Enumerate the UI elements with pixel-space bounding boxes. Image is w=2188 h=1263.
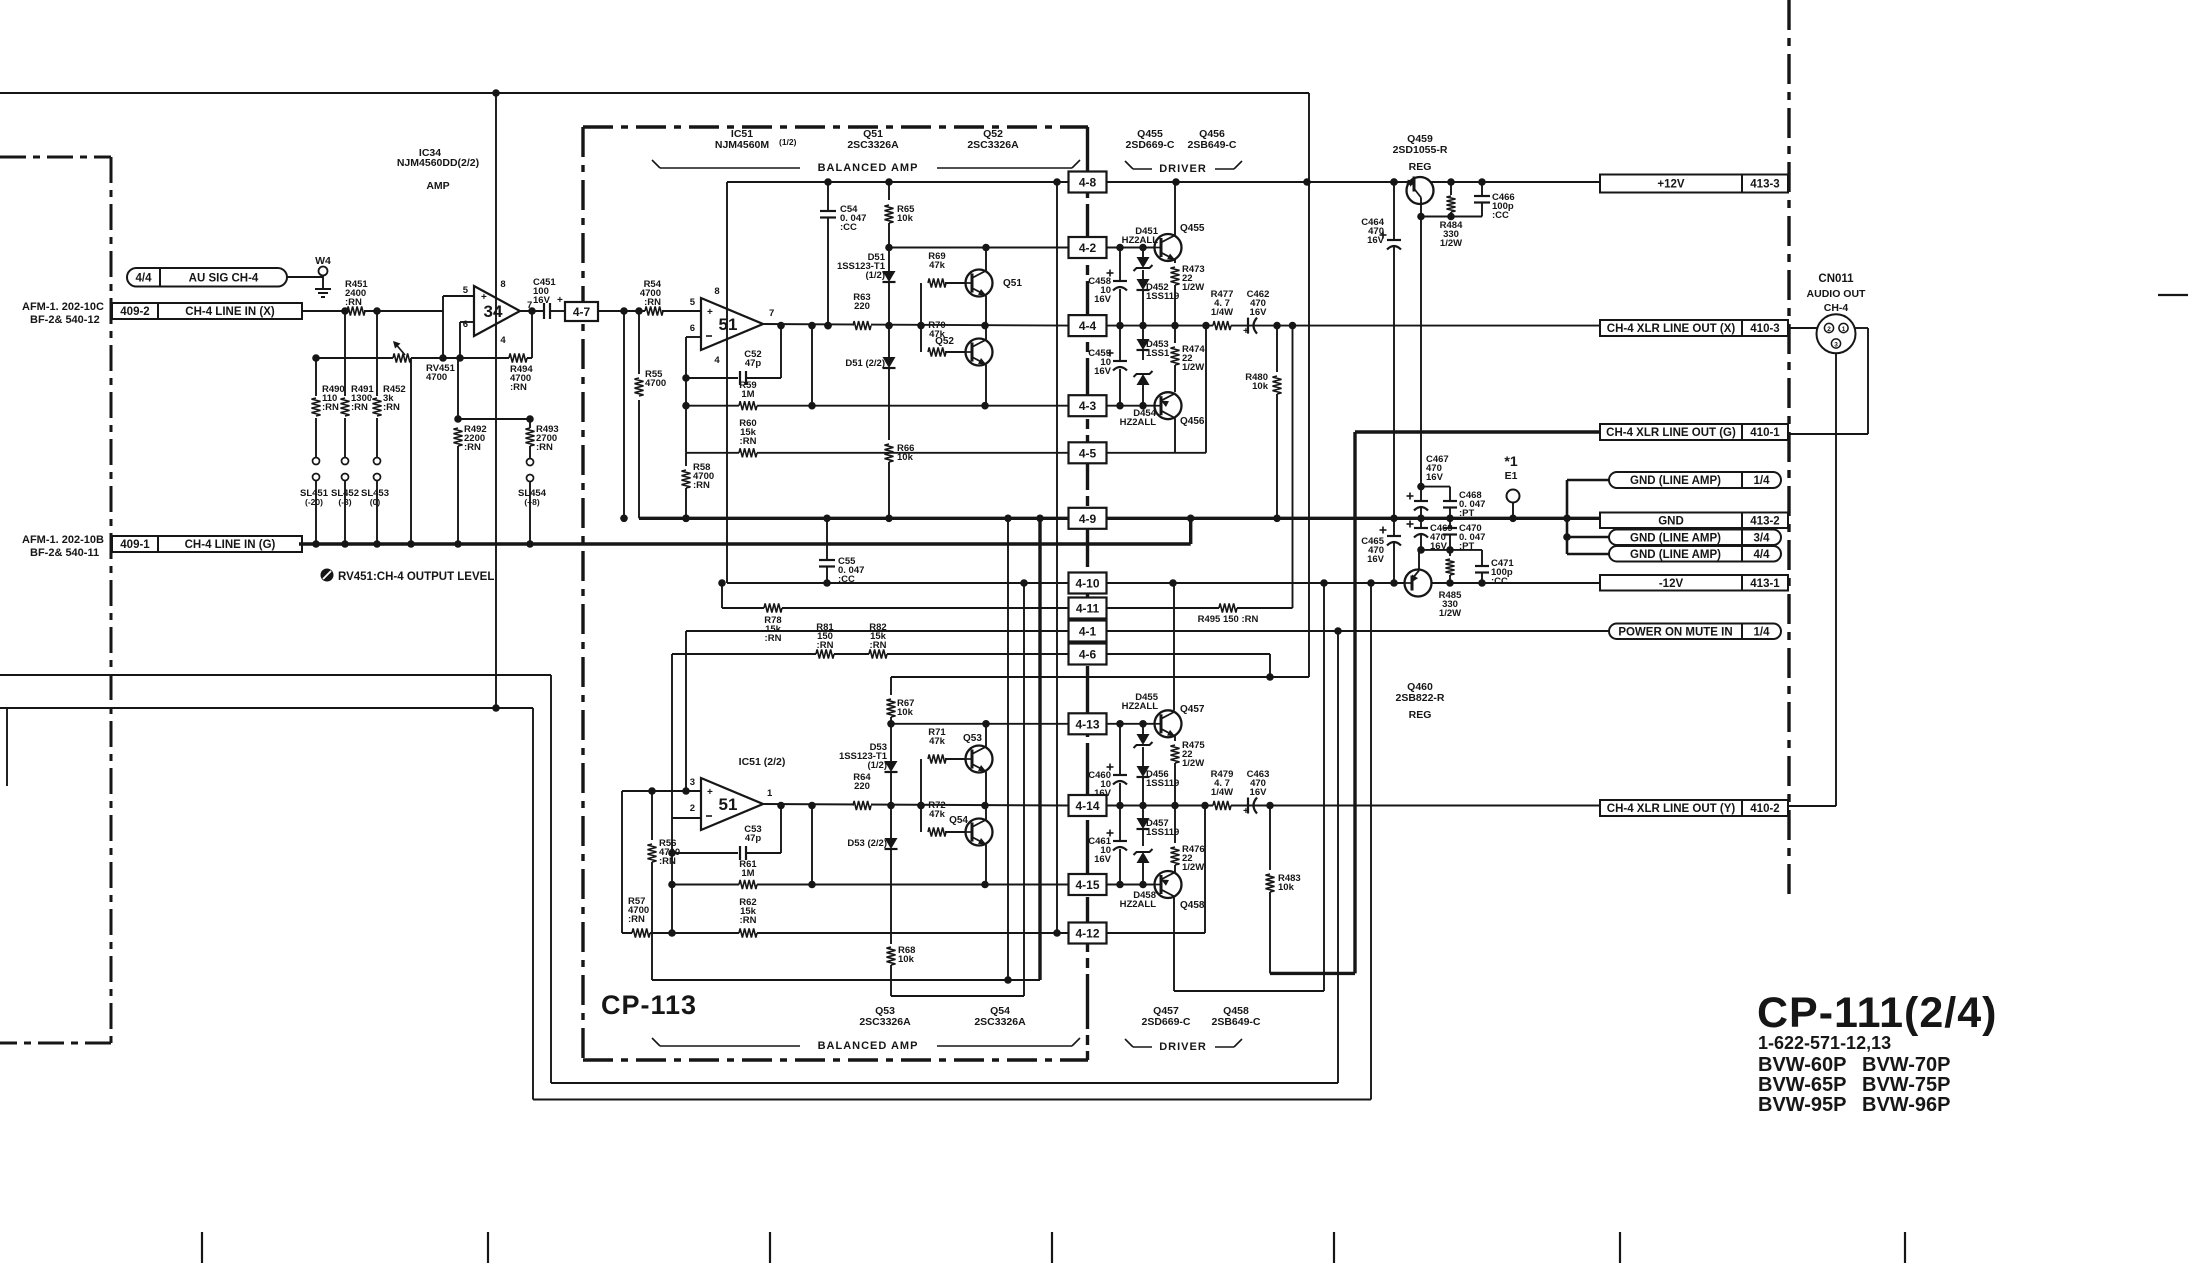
svg-text:4-6: 4-6 xyxy=(1079,648,1097,662)
svg-text:2SC3326A: 2SC3326A xyxy=(847,139,899,151)
svg-text:6: 6 xyxy=(690,323,695,334)
svg-text:4-8: 4-8 xyxy=(1079,176,1097,190)
svg-text:CH-4: CH-4 xyxy=(1824,302,1849,314)
svg-text:2SB822-R: 2SB822-R xyxy=(1395,692,1444,704)
svg-text:*1: *1 xyxy=(1504,453,1517,469)
svg-text:3/4: 3/4 xyxy=(1754,532,1771,544)
svg-text:GND: GND xyxy=(1658,515,1684,527)
svg-text::RN: :RN xyxy=(322,402,339,413)
svg-text:BVW-75P: BVW-75P xyxy=(1862,1074,1951,1096)
svg-text:CH-4 XLR LINE OUT (Y): CH-4 XLR LINE OUT (Y) xyxy=(1607,803,1736,815)
svg-text:5: 5 xyxy=(690,297,696,308)
svg-text:(1/2): (1/2) xyxy=(865,270,885,281)
svg-text:8: 8 xyxy=(500,279,505,290)
svg-text:4700: 4700 xyxy=(645,378,666,389)
svg-text:409-2: 409-2 xyxy=(120,306,149,318)
svg-text:4-13: 4-13 xyxy=(1075,717,1099,731)
svg-text:410-2: 410-2 xyxy=(1750,803,1779,815)
svg-text:413-3: 413-3 xyxy=(1750,179,1779,191)
svg-text:+: + xyxy=(1243,806,1249,817)
svg-text:AU SIG CH-4: AU SIG CH-4 xyxy=(189,272,259,284)
svg-text:7: 7 xyxy=(527,300,532,311)
svg-text:413-1: 413-1 xyxy=(1750,578,1780,590)
svg-text:(-20): (-20) xyxy=(305,497,323,507)
svg-text:2SC3326A: 2SC3326A xyxy=(859,1016,911,1028)
svg-text:2SB649-C: 2SB649-C xyxy=(1187,139,1236,151)
svg-text:4: 4 xyxy=(714,355,720,366)
svg-text:CH-4 XLR LINE OUT (G): CH-4 XLR LINE OUT (G) xyxy=(1606,427,1736,439)
svg-text:REG: REG xyxy=(1409,161,1432,173)
svg-text:1/4: 1/4 xyxy=(1754,475,1771,487)
svg-text::CC: :CC xyxy=(840,222,857,233)
svg-text:10k: 10k xyxy=(897,707,914,718)
svg-text:410-1: 410-1 xyxy=(1750,427,1780,439)
svg-text:+: + xyxy=(707,307,713,318)
svg-text:2SD1055-R: 2SD1055-R xyxy=(1393,144,1448,156)
svg-text:DRIVER: DRIVER xyxy=(1159,163,1207,175)
svg-text:1/2W: 1/2W xyxy=(1439,608,1461,619)
svg-text::PT: :PT xyxy=(1459,508,1475,519)
svg-text:16V: 16V xyxy=(1094,788,1112,799)
svg-text::RN: :RN xyxy=(536,442,553,453)
svg-text:4-4: 4-4 xyxy=(1079,319,1097,333)
svg-text:+: + xyxy=(707,787,713,798)
svg-text:16V: 16V xyxy=(1367,235,1385,246)
svg-text:3: 3 xyxy=(1834,342,1838,349)
svg-text:BF-2& 540-12: BF-2& 540-12 xyxy=(30,314,100,326)
svg-text:BVW-95P: BVW-95P xyxy=(1758,1094,1847,1116)
svg-text:34: 34 xyxy=(484,302,503,321)
svg-text::RN: :RN xyxy=(345,297,362,308)
svg-text:BALANCED AMP: BALANCED AMP xyxy=(818,162,919,174)
svg-text:413-2: 413-2 xyxy=(1750,515,1779,527)
svg-text:4/4: 4/4 xyxy=(136,272,153,284)
svg-text:4-10: 4-10 xyxy=(1075,577,1099,591)
svg-text:GND (LINE AMP): GND (LINE AMP) xyxy=(1630,532,1721,544)
svg-text:4: 4 xyxy=(500,335,506,346)
svg-text:1: 1 xyxy=(1842,326,1846,333)
svg-text:4/4: 4/4 xyxy=(1754,549,1771,561)
svg-text:Q51: Q51 xyxy=(1003,278,1022,289)
svg-text::RN: :RN xyxy=(628,914,645,925)
svg-text::RN: :RN xyxy=(817,640,834,651)
svg-text:4-9: 4-9 xyxy=(1079,512,1097,526)
svg-text:10k: 10k xyxy=(897,213,914,224)
svg-text:Q458: Q458 xyxy=(1180,900,1205,911)
svg-text::RN: :RN xyxy=(740,915,757,926)
svg-text:BVW-65P: BVW-65P xyxy=(1758,1074,1847,1096)
svg-text:+: + xyxy=(481,292,487,303)
svg-text:1/4W: 1/4W xyxy=(1211,787,1233,798)
svg-text:+12V: +12V xyxy=(1657,179,1685,191)
svg-text:10k: 10k xyxy=(1252,381,1269,392)
svg-text:POWER ON MUTE IN: POWER ON MUTE IN xyxy=(1618,626,1732,638)
svg-text:4700: 4700 xyxy=(426,372,447,383)
svg-text:2SC3326A: 2SC3326A xyxy=(967,139,1019,151)
svg-text:RV451:CH-4 OUTPUT LEVEL: RV451:CH-4 OUTPUT LEVEL xyxy=(338,571,494,583)
svg-text:1SS119: 1SS119 xyxy=(1146,778,1179,789)
svg-text:+: + xyxy=(1243,326,1249,337)
svg-text:4-12: 4-12 xyxy=(1075,927,1099,941)
svg-text:1-622-571-12,13: 1-622-571-12,13 xyxy=(1758,1033,1891,1053)
svg-text:1/4W: 1/4W xyxy=(1211,307,1233,318)
svg-text:6: 6 xyxy=(463,319,468,330)
svg-text:16V: 16V xyxy=(533,295,551,306)
svg-text:1/2W: 1/2W xyxy=(1182,282,1204,293)
svg-text:8: 8 xyxy=(714,286,719,297)
svg-text:16V: 16V xyxy=(1367,554,1385,565)
svg-text:1/2W: 1/2W xyxy=(1182,758,1204,769)
svg-text:AUDIO OUT: AUDIO OUT xyxy=(1807,288,1867,300)
svg-text:4-1: 4-1 xyxy=(1079,625,1097,639)
svg-text:CH-4 LINE IN (G): CH-4 LINE IN (G) xyxy=(185,539,276,551)
svg-text::RN: :RN xyxy=(383,402,400,413)
svg-text::RN: :RN xyxy=(464,442,481,453)
svg-text:Q456: Q456 xyxy=(1180,416,1205,427)
svg-text:BVW-70P: BVW-70P xyxy=(1862,1054,1951,1076)
svg-text:7: 7 xyxy=(769,308,774,319)
svg-text:4-7: 4-7 xyxy=(573,305,591,319)
svg-text:1/4: 1/4 xyxy=(1754,626,1771,638)
svg-text:16V: 16V xyxy=(1094,294,1112,305)
svg-text:CP-111(2/4): CP-111(2/4) xyxy=(1757,989,1997,1037)
svg-text::RN: :RN xyxy=(740,436,757,447)
svg-text:CP-113: CP-113 xyxy=(601,990,697,1020)
svg-text::RN: :RN xyxy=(510,382,527,393)
svg-text:1: 1 xyxy=(767,788,773,799)
svg-text:IC51 (2/2): IC51 (2/2) xyxy=(739,756,786,768)
svg-text:10k: 10k xyxy=(898,954,915,965)
svg-text:(-3): (-3) xyxy=(338,497,351,507)
svg-text::RN: :RN xyxy=(693,480,710,491)
svg-text:GND (LINE AMP): GND (LINE AMP) xyxy=(1630,549,1721,561)
svg-text:+: + xyxy=(557,295,563,306)
svg-text:(0): (0) xyxy=(370,497,381,507)
svg-text:4-15: 4-15 xyxy=(1075,878,1099,892)
svg-text:2SD669-C: 2SD669-C xyxy=(1141,1016,1190,1028)
svg-text:E1: E1 xyxy=(1505,470,1518,482)
svg-text:47p: 47p xyxy=(745,833,762,844)
svg-text:-12V: -12V xyxy=(1659,578,1684,590)
svg-text:BALANCED AMP: BALANCED AMP xyxy=(818,1040,919,1052)
svg-text::RN: :RN xyxy=(351,402,368,413)
svg-text:16V: 16V xyxy=(1094,366,1112,377)
svg-text:10k: 10k xyxy=(1278,882,1295,893)
svg-text:HZ2ALL: HZ2ALL xyxy=(1122,701,1159,712)
svg-text:GND (LINE AMP): GND (LINE AMP) xyxy=(1630,475,1721,487)
svg-text::PT: :PT xyxy=(1459,541,1475,552)
svg-text:Q53: Q53 xyxy=(963,733,982,744)
svg-text::CC: :CC xyxy=(1492,210,1509,221)
svg-text:220: 220 xyxy=(854,301,870,312)
svg-text:BVW-96P: BVW-96P xyxy=(1862,1094,1951,1116)
svg-text:CN011: CN011 xyxy=(1818,273,1854,285)
svg-text:1M: 1M xyxy=(741,868,754,879)
svg-text:16V: 16V xyxy=(1250,307,1268,318)
svg-text:CH-4 XLR LINE OUT (X): CH-4 XLR LINE OUT (X) xyxy=(1607,323,1736,335)
svg-text:4-2: 4-2 xyxy=(1079,241,1097,255)
svg-text:4-5: 4-5 xyxy=(1079,446,1097,460)
svg-text:2: 2 xyxy=(1827,326,1831,333)
svg-text:Q457: Q457 xyxy=(1180,704,1205,715)
svg-text:D51 (2/2): D51 (2/2) xyxy=(845,358,885,369)
svg-text:3: 3 xyxy=(690,777,695,788)
svg-text:2SD669-C: 2SD669-C xyxy=(1125,139,1174,151)
svg-text:2SB649-C: 2SB649-C xyxy=(1211,1016,1260,1028)
svg-text::RN: :RN xyxy=(765,633,782,644)
svg-text:5: 5 xyxy=(463,285,469,296)
svg-text:2: 2 xyxy=(690,803,695,814)
svg-text:220: 220 xyxy=(854,781,870,792)
svg-text:16V: 16V xyxy=(1426,472,1444,483)
svg-text:Q52: Q52 xyxy=(935,336,954,347)
svg-text:410-3: 410-3 xyxy=(1750,323,1779,335)
svg-text:AFM-1. 202-10C: AFM-1. 202-10C xyxy=(22,301,104,313)
svg-text:DRIVER: DRIVER xyxy=(1159,1041,1207,1053)
svg-text::RN: :RN xyxy=(870,640,887,651)
svg-text:16V: 16V xyxy=(1094,854,1112,865)
svg-text:47k: 47k xyxy=(929,736,946,747)
svg-text:4-14: 4-14 xyxy=(1075,799,1099,813)
svg-text:HZ2ALL: HZ2ALL xyxy=(1122,235,1159,246)
svg-text:REG: REG xyxy=(1409,709,1432,721)
svg-text:R495 150 :RN: R495 150 :RN xyxy=(1198,614,1259,625)
svg-text::RN: :RN xyxy=(659,856,676,867)
svg-text:Q54: Q54 xyxy=(949,815,968,826)
svg-text:Q455: Q455 xyxy=(1180,223,1205,234)
svg-text:47p: 47p xyxy=(745,358,762,369)
svg-text:HZ2ALL: HZ2ALL xyxy=(1120,899,1157,910)
svg-text:47k: 47k xyxy=(929,260,946,271)
svg-text:47k: 47k xyxy=(929,809,946,820)
svg-text:BVW-60P: BVW-60P xyxy=(1758,1054,1847,1076)
svg-text:NJM4560DD(2/2): NJM4560DD(2/2) xyxy=(397,157,479,169)
svg-text:409-1: 409-1 xyxy=(120,539,150,551)
svg-text::RN: :RN xyxy=(644,297,661,308)
svg-text:NJM4560M: NJM4560M xyxy=(715,139,770,151)
svg-text:W4: W4 xyxy=(315,255,331,267)
svg-text:1/2W: 1/2W xyxy=(1182,862,1204,873)
svg-text:D53 (2/2): D53 (2/2) xyxy=(847,838,887,849)
svg-text:51: 51 xyxy=(719,795,738,814)
svg-text:AFM-1. 202-10B: AFM-1. 202-10B xyxy=(22,534,104,546)
svg-text:16V: 16V xyxy=(1250,787,1268,798)
svg-text:(+8): (+8) xyxy=(524,497,540,507)
svg-text:51: 51 xyxy=(719,315,738,334)
svg-text:4-3: 4-3 xyxy=(1079,399,1097,413)
svg-text:HZ2ALL: HZ2ALL xyxy=(1120,417,1157,428)
svg-text:2SC3326A: 2SC3326A xyxy=(974,1016,1026,1028)
svg-text:CH-4 LINE IN (X): CH-4 LINE IN (X) xyxy=(185,306,275,318)
svg-text::CC: :CC xyxy=(1491,576,1508,587)
svg-text:4-11: 4-11 xyxy=(1076,602,1100,616)
svg-text:1/2W: 1/2W xyxy=(1182,362,1204,373)
svg-text:AMP: AMP xyxy=(426,180,449,192)
svg-text:(1/2): (1/2) xyxy=(779,137,797,147)
svg-text:BF-2& 540-11: BF-2& 540-11 xyxy=(30,547,99,559)
svg-text:1M: 1M xyxy=(741,389,754,400)
svg-text:(1/2): (1/2) xyxy=(867,760,887,771)
svg-text:1/2W: 1/2W xyxy=(1440,238,1462,249)
svg-text:1SS119: 1SS119 xyxy=(1146,291,1179,302)
